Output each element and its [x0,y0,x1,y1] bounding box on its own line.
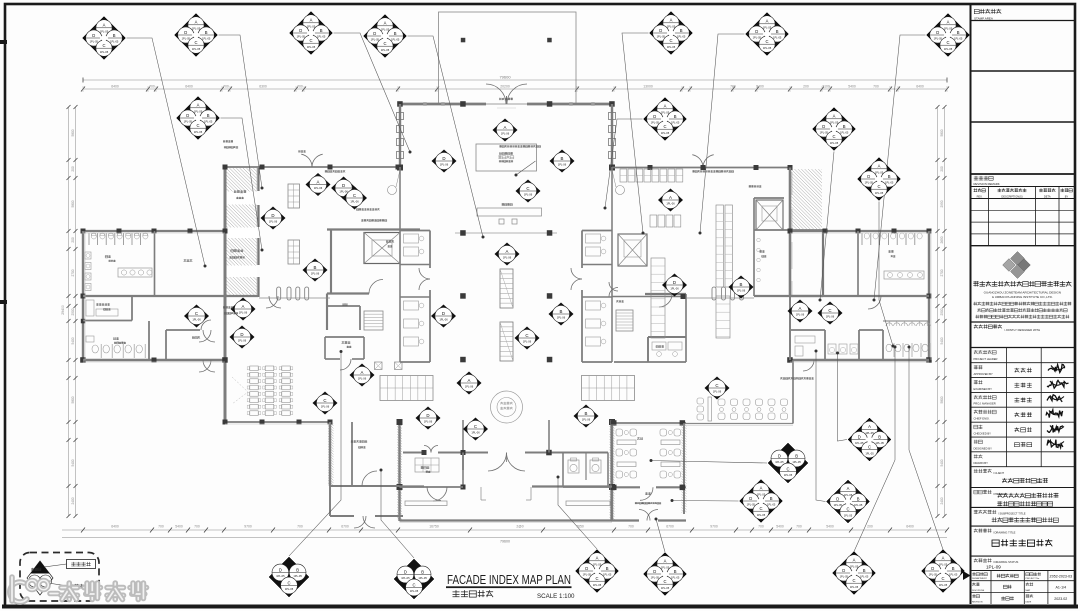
svg-text:1PL-06: 1PL-06 [314,186,323,190]
svg-text:REVISION: REVISION [972,602,983,604]
meeting window boxes [375,362,383,370]
svg-text:5800: 5800 [940,396,944,403]
svg-text:1PL-05: 1PL-05 [661,565,670,569]
svg-text:DESIGNED BY: DESIGNED BY [974,446,993,450]
svg-text:A: A [317,179,320,184]
svg-text:D: D [184,30,187,35]
facade index diamond marker M7 at (948,35) [927,14,970,57]
svg-text:1PL-05: 1PL-05 [767,503,776,507]
svg-text:200: 200 [803,85,809,89]
leader from bottom diamond 1 [289,352,341,557]
svg-text:1PL-05: 1PL-05 [381,48,390,52]
facade index diamond marker M5 at (671,33) [650,12,693,55]
facade index diamond marker M18 at (943,571) [922,550,965,593]
svg-text:D: D [673,280,676,285]
svg-text:C: C [474,424,477,429]
svg-text:1PL-05: 1PL-05 [391,38,400,42]
single facade marker C at (717,388) [705,377,730,400]
svg-text:700: 700 [194,525,200,529]
restaurant tables and chairs [616,429,623,436]
leader from bottom diamond 5 [854,347,895,552]
svg-text:C: C [765,39,768,44]
svg-text:200: 200 [71,166,75,172]
svg-text:EXAMINED BY: EXAMINED BY [974,387,993,391]
svg-text:6700: 6700 [341,525,349,529]
svg-text:1PL-05: 1PL-05 [192,47,201,51]
facade index diamond marker M13 at (848,501.5) [827,480,870,523]
svg-text:/ SUBPROJECT TITLE: / SUBPROJECT TITLE [998,512,1026,516]
svg-text:D: D [858,434,861,439]
svg-text:1PL-06: 1PL-06 [321,405,330,409]
leader from diamond 12 [516,161,536,175]
south block west wall hatch [288,421,603,520]
svg-text:C: C [663,579,666,584]
leader from bottom diamond 2 [381,470,414,558]
svg-text:1PL-05: 1PL-05 [757,492,766,496]
svg-text:A: A [878,164,881,169]
facade index diamond marker M11 at (879,179) [858,158,901,201]
east wing west wall [789,296,791,360]
svg-text:B: B [740,282,743,287]
svg-text:A: A [947,20,950,25]
leader from diamond SE1 [838,353,848,441]
svg-text:B: B [795,453,798,458]
west colonnade spine walls [224,167,227,423]
svg-text:1PL-05: 1PL-05 [763,25,772,29]
svg-text:A: A [853,558,856,563]
east wing corridor door arc [868,296,881,309]
svg-text:Z052-2023-03: Z052-2023-03 [1050,574,1073,578]
svg-text:B: B [952,566,955,571]
east market shelf row top [620,169,627,182]
svg-text:1PL-05: 1PL-05 [661,586,670,590]
svg-text:1PL-05: 1PL-05 [276,574,285,578]
single facade marker D at (674.5,285) [662,274,687,297]
svg-text:1PL-05: 1PL-05 [671,576,680,580]
single facade marker A at (507,254) [495,243,520,266]
svg-text:16750: 16750 [429,525,439,529]
svg-text:1PL-06: 1PL-06 [524,193,533,197]
svg-text:D: D [92,33,95,38]
svg-text:1PL-05: 1PL-05 [834,503,843,507]
svg-text:C: C [196,123,199,128]
svg-text:2950: 2950 [940,200,944,207]
svg-text:PROJ. MANAGER: PROJ. MANAGER [974,402,996,406]
svg-text:D: D [240,332,243,337]
east colonnade spine walls [612,167,790,169]
duty room walls [325,336,364,338]
svg-text:9700: 9700 [710,525,718,529]
hot water room fixtures [795,336,815,343]
svg-text:1PL-05: 1PL-05 [657,35,666,39]
svg-text:9700: 9700 [244,525,252,529]
svg-text:5800: 5800 [71,129,75,136]
west hall colonnade pillars [277,287,281,300]
svg-text:A: A [799,306,802,311]
leader from diamond 11 [879,202,893,347]
main hall north wall with double entry door [398,103,486,106]
svg-text:2500: 2500 [71,308,75,315]
svg-text:200: 200 [71,237,75,243]
svg-text:B: B [857,496,860,501]
svg-text:D: D [186,113,189,118]
svg-text:APPROVED BY: APPROVED BY [974,372,993,376]
svg-text:700: 700 [297,525,303,529]
svg-text:A: A [596,556,599,561]
leader from bottom diamond 6 [909,347,943,550]
stamp area rows [974,10,979,14]
svg-text:2400: 2400 [71,497,75,504]
svg-text:C: C [383,41,386,46]
svg-text:1PL-06: 1PL-06 [826,315,835,319]
svg-text:D: D [271,213,274,218]
facade index 3-circle diamond marker T1 [269,557,309,597]
women toilet stalls [88,233,90,245]
svg-text:/ DRAWING TITLE: / DRAWING TITLE [993,531,1016,535]
svg-text:1PL-05: 1PL-05 [844,493,853,497]
west wing walls [83,230,225,232]
watermark logo and text [10,577,147,602]
svg-text:700: 700 [223,85,229,89]
svg-text:1PL-06: 1PL-06 [713,390,722,394]
svg-text:1PL-05: 1PL-05 [875,191,884,195]
company logo and name block [1003,252,1031,279]
single facade marker C at (830,313) [818,302,843,325]
right vertical dimension lines [937,107,939,516]
svg-text:1PL-05: 1PL-05 [944,26,953,30]
leader from diamond 9 [605,119,643,208]
leader from diamond 2 [219,35,263,188]
svg-text:1PL-05: 1PL-05 [410,589,419,593]
svg-text:79600: 79600 [500,540,510,544]
jointly designed with row [974,324,978,328]
east wing toilet partition scallops [886,323,892,326]
svg-text:B: B [113,33,116,38]
svg-text:1PL-06: 1PL-06 [666,202,675,206]
svg-text:C: C [309,38,312,43]
single facade marker D at (343.6,188) [331,177,356,200]
svg-text:700: 700 [758,525,764,529]
svg-text:A: A [361,370,364,375]
svg-text:1PL-06: 1PL-06 [358,377,367,381]
restaurant east wall hatch [583,424,867,513]
svg-text:PROJECT LEADER: PROJECT LEADER [974,357,998,361]
leader from diamond 10 [820,152,834,301]
east link elevator and stairs [618,234,647,266]
main hall side walls with column boxes [399,104,401,167]
southwest multifunction room walls [225,421,330,423]
svg-text:A1-1/4: A1-1/4 [1056,585,1067,589]
svg-text:B: B [314,265,317,270]
svg-text:A: A [760,486,763,491]
svg-text:D: D [931,566,934,571]
svg-text:2700: 2700 [71,269,75,276]
svg-text:C: C [786,466,789,471]
svg-text:B: B [674,569,677,574]
west display case 1 [288,184,300,208]
single facade marker D at (444,161) [432,150,457,173]
svg-text:D: D [867,174,870,179]
svg-text:1PL-05: 1PL-05 [876,441,885,445]
svg-text:REVISION REMARK: REVISION REMARK [974,182,1000,186]
svg-text:1PL-05: 1PL-05 [865,181,874,185]
svg-text:3100: 3100 [822,85,830,89]
leader from diamond 1 [127,38,206,266]
svg-text:C: C [669,38,672,43]
svg-text:& URBAN PLANNING INSTITUTE CO.: & URBAN PLANNING INSTITUTE CO.,LTD. [992,295,1053,299]
svg-text:C: C [525,333,528,338]
single facade marker A at (505,130) [493,119,518,142]
east elevator and storeroom [754,197,784,199]
svg-text:D: D [822,124,825,129]
svg-text:1PL-06: 1PL-06 [269,220,278,224]
svg-text:1PL-06: 1PL-06 [238,339,247,343]
svg-text:B: B [320,28,323,33]
hall bench planter 1 [500,269,513,308]
title block left border [970,5,972,604]
svg-text:D: D [749,496,752,501]
svg-text:1PL-05: 1PL-05 [100,29,109,33]
svg-text:1PL-06: 1PL-06 [339,190,348,194]
svg-text:A: A [664,104,667,109]
leader from bottom diamond 4 [656,519,665,552]
svg-text:5400: 5400 [826,525,834,529]
svg-text:B: B [770,496,773,501]
svg-text:1PL-06: 1PL-06 [558,163,567,167]
svg-text:1PL-05: 1PL-05 [954,37,963,41]
facade index diamond marker M10 at (834,129) [813,108,856,151]
svg-text:B: B [674,114,677,119]
svg-text:1PL-05: 1PL-05 [671,121,680,125]
svg-text:B: B [680,28,683,33]
sink counter [118,268,152,277]
svg-text:A: A [103,23,106,28]
leader from diamond 7 [874,35,926,300]
svg-text:1PL-05: 1PL-05 [784,473,793,477]
svg-text:1PL-05: 1PL-05 [90,40,99,44]
west elevator and shaft [327,228,420,230]
svg-text:B: B [205,30,208,35]
svg-text:B: B [560,309,563,314]
facade index diamond marker M2 at (196,35) [175,14,218,57]
svg-text:1PL-06: 1PL-06 [465,385,474,389]
police room desks [415,458,439,472]
svg-text:6400: 6400 [111,85,119,89]
svg-text:2500: 2500 [940,308,944,315]
svg-text:5400: 5400 [71,337,75,344]
svg-text:A: A [664,559,667,564]
svg-text:1PL-05: 1PL-05 [850,564,859,568]
svg-text:C: C [323,398,326,403]
svg-text:D: D [279,567,282,572]
svg-text:DRAWN BY: DRAWN BY [974,461,989,465]
svg-text:D: D [404,569,407,574]
svg-text:1PL-05: 1PL-05 [583,573,592,577]
leader from diamond 4 [408,36,484,237]
svg-text:2700: 2700 [940,269,944,276]
svg-text:1PL-06: 1PL-06 [501,132,510,136]
svg-text:C: C [595,576,598,581]
svg-text:C: C [195,311,198,316]
svg-text:DESCRIPTION(S): DESCRIPTION(S) [1001,195,1022,199]
east colonnade glass line [684,297,754,299]
leader from diamond 6 [700,34,745,233]
single facade marker D at (242,337) [230,326,255,349]
svg-text:1PL-05: 1PL-05 [875,170,884,174]
single facade marker D at (273,218) [261,207,286,230]
svg-text:C: C [832,134,835,139]
svg-text:1PL-05: 1PL-05 [285,587,294,591]
svg-text:1PL-05: 1PL-05 [840,575,849,579]
facade index diamond marker M14 at (761,501) [740,480,783,523]
east link south window wall [686,423,793,425]
entrance canopy outline [439,12,577,104]
svg-text:1PL-05: 1PL-05 [865,431,874,435]
svg-text:1PL-05: 1PL-05 [792,460,801,464]
svg-text:1PL-05: 1PL-05 [747,503,756,507]
svg-text:1PL-05: 1PL-05 [418,576,427,580]
revision table [974,176,978,180]
svg-text:A: A [833,114,836,119]
west stairs [364,311,383,330]
svg-text:2023.02: 2023.02 [1054,597,1067,601]
column grid bubble east [616,186,625,195]
leader from diamond 5 [622,33,649,233]
svg-text:SCALE 1:100: SCALE 1:100 [537,593,575,600]
svg-text:6300: 6300 [259,85,267,89]
svg-text:1PL-05: 1PL-05 [860,575,869,579]
svg-text:700: 700 [873,85,879,89]
svg-text:1PL-05: 1PL-05 [820,131,829,135]
leader from diamond SE2 [816,351,826,502]
svg-text:1PL-05: 1PL-05 [757,513,766,517]
hall interior column grid [455,232,557,234]
office strip desks [404,234,419,243]
facade index diamond marker M6 at (767,34) [746,13,789,56]
svg-text:1PL-05: 1PL-05 [763,46,772,50]
southwest window wall hatch [258,423,458,485]
svg-text:1PL-05: 1PL-05 [202,37,211,41]
svg-text:C: C [846,507,849,512]
svg-text:2650: 2650 [940,236,944,243]
svg-text:1PL-05: 1PL-05 [939,562,948,566]
restaurant walls and vestibule [610,420,612,521]
svg-text:1PL-05: 1PL-05 [593,583,602,587]
men urinals [92,345,98,353]
svg-text:1PL-05: 1PL-05 [651,121,660,125]
svg-text:1PL-06: 1PL-06 [582,418,591,422]
svg-text:700: 700 [796,525,802,529]
svg-text:1PL-06: 1PL-06 [440,163,449,167]
west meeting table grid [380,376,433,401]
south block beam walls [400,485,425,487]
svg-text:5800: 5800 [940,129,944,136]
svg-text:D: D [755,29,758,34]
svg-text:1PL-05: 1PL-05 [381,27,390,31]
svg-text:A: A [504,125,507,130]
svg-text:1PL-06: 1PL-06 [503,256,512,260]
facade index diamond marker M8 at (198,118) [177,97,220,140]
svg-text:C: C [759,506,762,511]
svg-text:C: C [194,40,197,45]
single facade marker A at (469,383) [457,372,482,395]
svg-text:B: B [394,31,397,36]
svg-text:1PL-05: 1PL-05 [854,503,863,507]
svg-text:1PL-05: 1PL-05 [651,576,660,580]
svg-text:A: A [242,304,245,309]
east toilet stalls [861,233,863,245]
svg-text:700: 700 [149,85,155,89]
svg-text:5400: 5400 [71,459,75,466]
svg-text:D: D [585,566,588,571]
svg-text:/ JOINTLY DESIGNED WITH: / JOINTLY DESIGNED WITH [1004,328,1040,332]
svg-text:1PL-05: 1PL-05 [194,109,203,113]
reading area desk columns [250,366,258,371]
svg-text:1PL-09: 1PL-09 [986,565,1001,570]
svg-text:1PL-06: 1PL-06 [737,289,746,293]
svg-text:DISCIPLINE: DISCIPLINE [972,590,985,592]
svg-text:1PL-05: 1PL-05 [661,131,670,135]
svg-text:5400: 5400 [776,525,784,529]
svg-text:1PL-05: 1PL-05 [929,573,938,577]
svg-text:20200: 20200 [500,85,510,89]
svg-text:1PL-05: 1PL-05 [593,562,602,566]
svg-text:B: B [207,113,210,118]
east link corridor wall [612,296,684,298]
svg-text:C: C [868,445,871,450]
atrium side office strip walls [429,231,431,269]
svg-text:1PL-05: 1PL-05 [110,40,119,44]
east wing walls [790,230,929,232]
svg-text:1PL-05: 1PL-05 [401,576,410,580]
svg-text:1PL-06: 1PL-06 [796,313,805,317]
single facade marker C at (475.5,429) [463,418,488,441]
single facade marker D at (443.5,316) [431,305,456,328]
svg-text:1PL-05: 1PL-05 [830,120,839,124]
facade index diamond marker M1 at (104,38) [83,17,126,60]
east hall colonnade pillars [712,287,716,300]
svg-text:5400: 5400 [175,525,183,529]
single facade marker A at (800,311) [788,300,813,323]
svg-text:29400: 29400 [61,305,65,315]
svg-text:B: B [776,29,779,34]
svg-text:D: D [842,568,845,573]
leader from diamond 8 [221,118,263,250]
east sink counter [884,271,924,279]
svg-text:1PL-05: 1PL-05 [939,583,948,587]
south toilets [563,452,608,454]
south block east wall hatch [500,421,815,520]
svg-text:1PL-05: 1PL-05 [677,35,686,39]
svg-text:6400: 6400 [111,525,119,529]
svg-text:DEPARTMENT: DEPARTMENT [972,577,988,580]
svg-text:1PL-05: 1PL-05 [293,574,302,578]
reception desk [476,144,537,171]
svg-text:PROJECT No.: PROJECT No. [1026,578,1041,580]
svg-text:FACADE INDEX MAP PLAN: FACADE INDEX MAP PLAN [447,572,571,587]
facade index diamond marker M4 at (385,36) [364,15,407,58]
svg-text:C: C [941,576,944,581]
svg-text:1PL-05: 1PL-05 [100,50,109,54]
leader from diamond 3 [334,33,411,152]
east office desks [652,342,666,350]
svg-text:D: D [373,31,376,36]
east link tall shelf columns lower [651,258,665,338]
svg-text:A: A [669,195,672,200]
leader from 3c diamond SE [651,461,767,464]
svg-text:1PL-05: 1PL-05 [371,38,380,42]
svg-text:C: C [353,193,356,198]
